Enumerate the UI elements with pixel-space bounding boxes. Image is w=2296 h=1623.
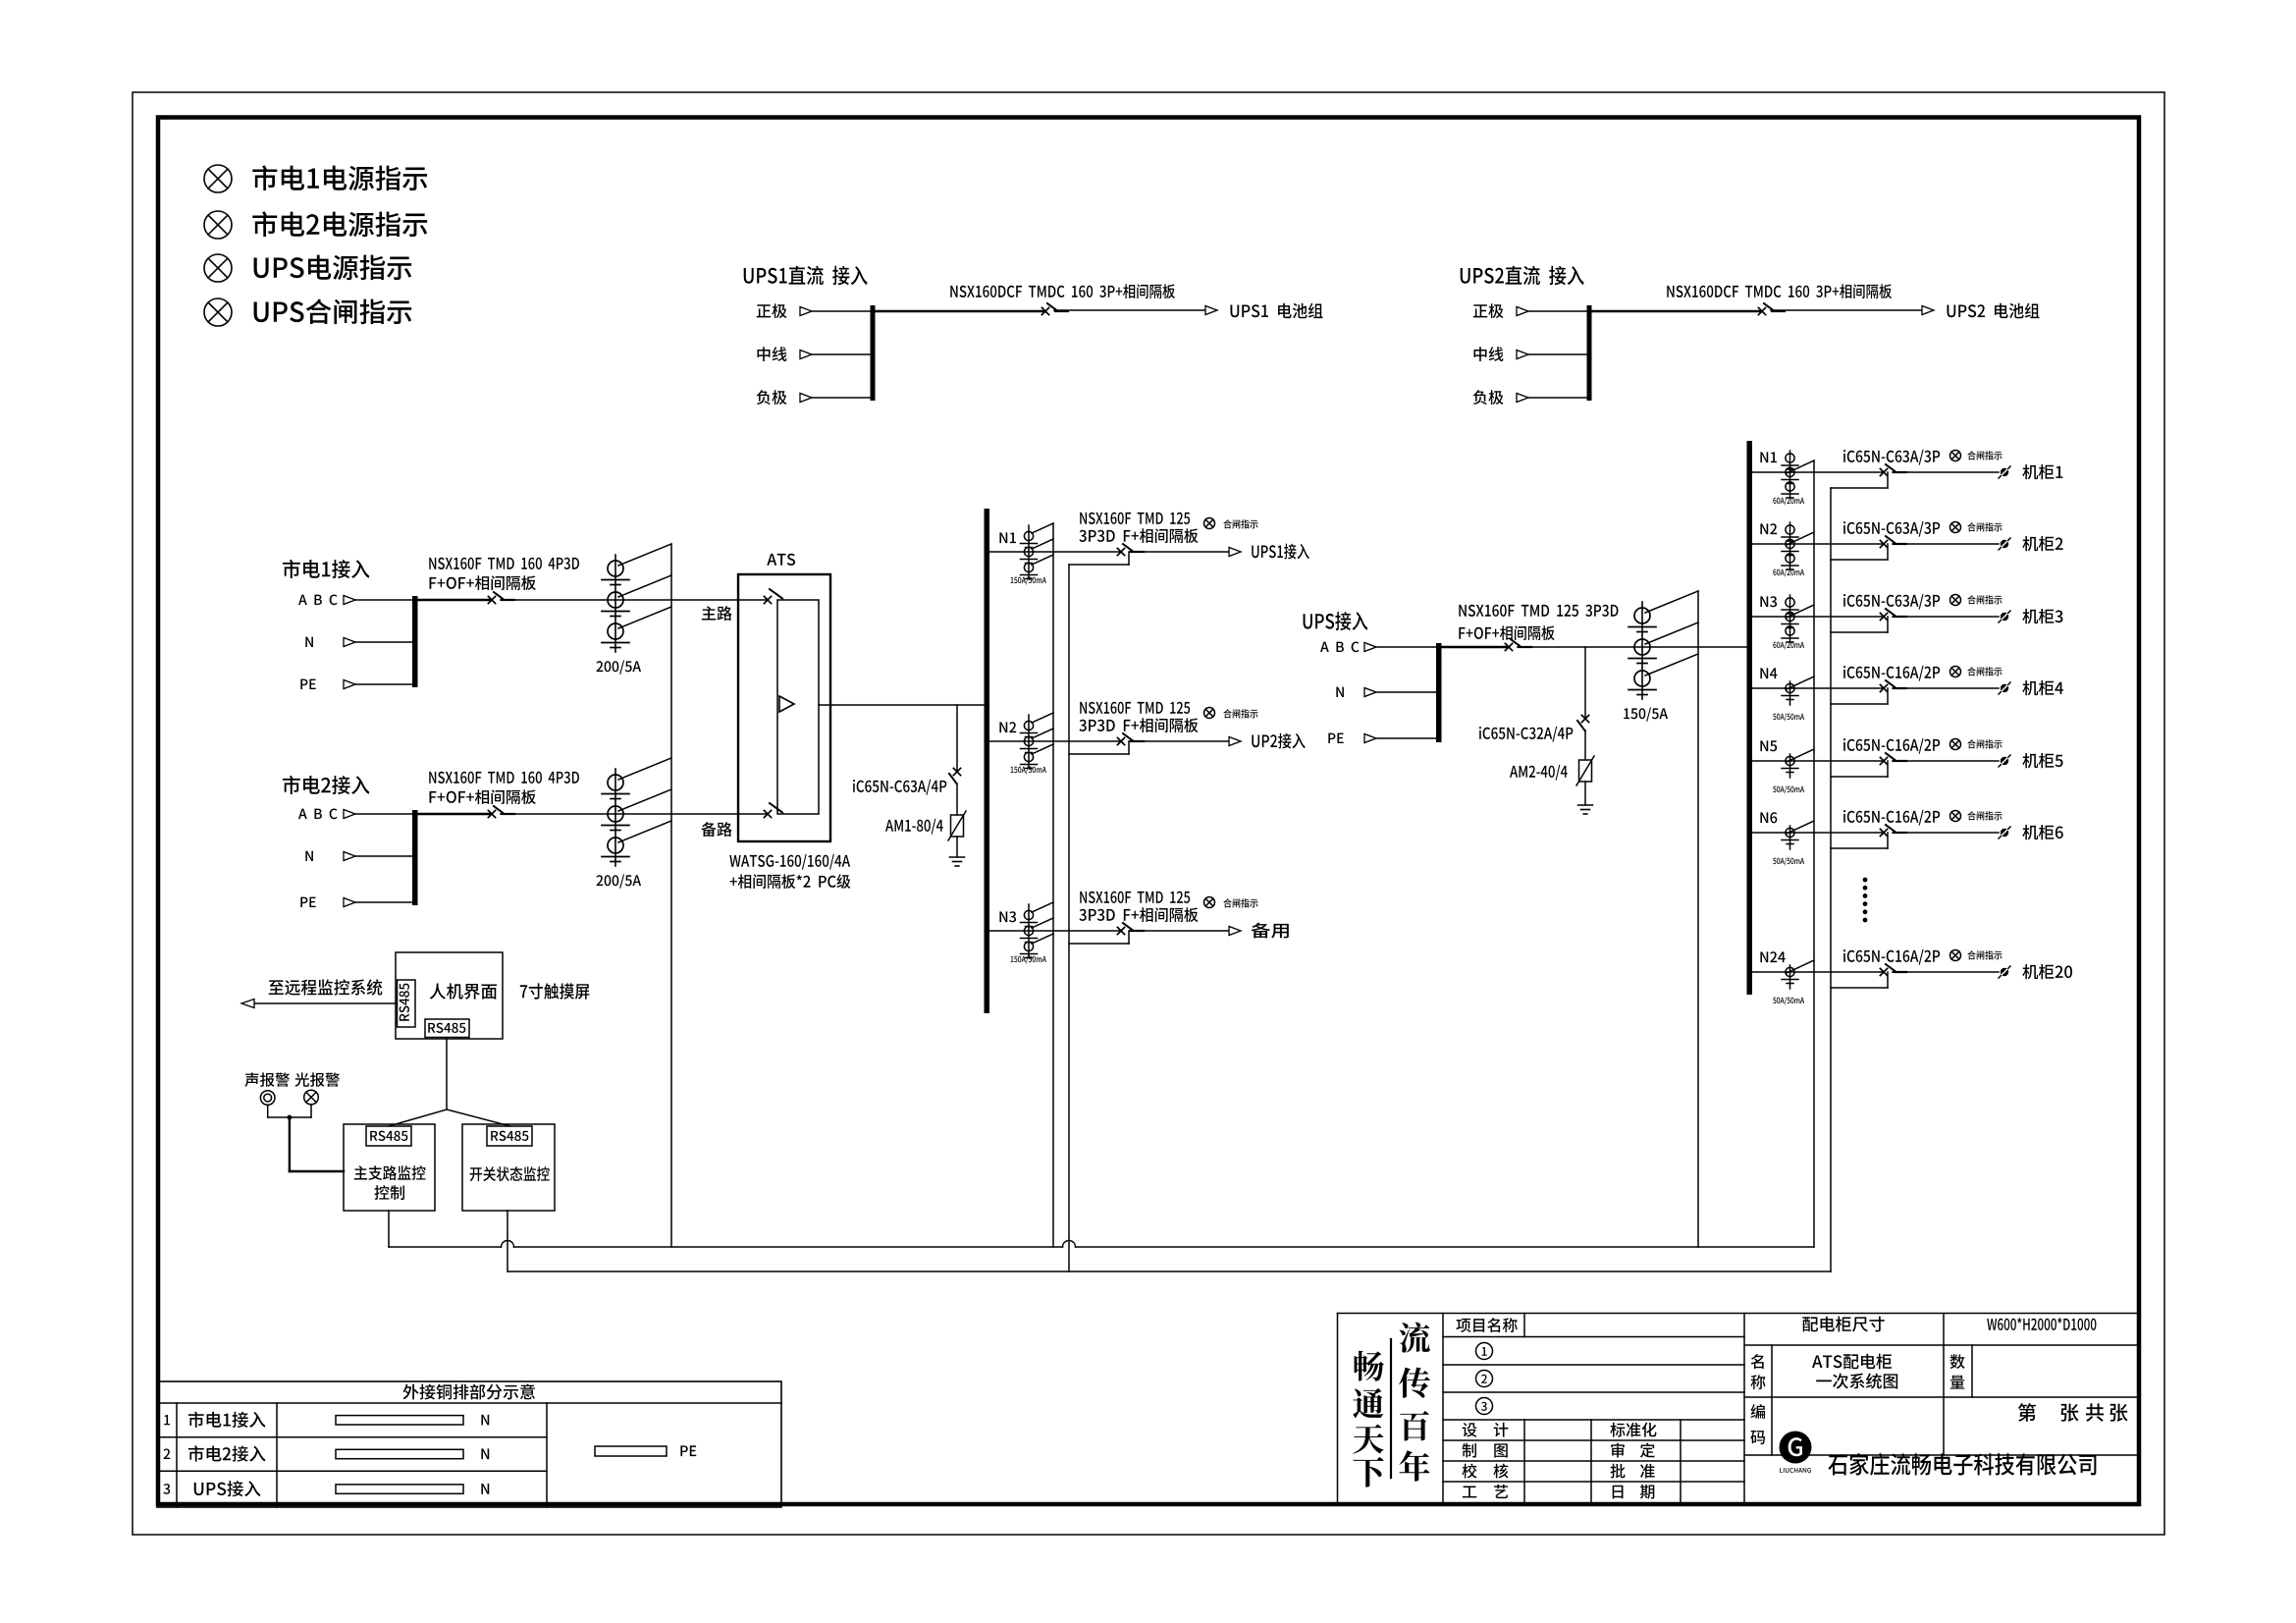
- label WATSG-160/160/4A: [729, 854, 850, 870]
- terminal 正极 label UPS2: [1473, 303, 1504, 318]
- wire breaker to rack N24: [1893, 971, 1999, 973]
- CT diagonals N2: [1032, 713, 1053, 754]
- label 3P3D F+相间隔板 N3: [1079, 907, 1198, 922]
- wire PE to busbar 市电2: [355, 901, 413, 903]
- status tap N3: [1831, 617, 1888, 632]
- wire N to busbar UPS: [1376, 691, 1437, 693]
- node 机柜3 label: [2022, 609, 2062, 623]
- node N2 label: [999, 722, 1016, 732]
- breaker QF-UPS2 NSX160DCF: [1758, 303, 1785, 315]
- arrow to UPS2 battery: [1922, 306, 1934, 315]
- wire ABC to busbar 市电1: [355, 599, 413, 601]
- status tap N3: [1069, 931, 1129, 944]
- wire UPS2 positive feed: [1591, 310, 1762, 313]
- node N6 (rack feed) label: [1760, 812, 1777, 823]
- wire drop to surge breaker: [956, 705, 958, 772]
- status tap N4: [1831, 688, 1888, 704]
- terminal PE 市电2: [300, 897, 315, 907]
- label iC65N-C63A/4P: [853, 780, 946, 795]
- label 合闸指示 N2: [1223, 709, 1257, 718]
- ATS standby-path breaker contact: [764, 803, 782, 818]
- CT secondary collection (UPS) to monitoring: [1697, 591, 1699, 1247]
- label 合闸指示 N4: [1967, 667, 2002, 676]
- label 60A/20mA N2: [1773, 568, 1804, 576]
- label ATS配电柜: [1812, 1354, 1892, 1370]
- node UPS1接入 label: [1252, 544, 1309, 560]
- busbar 市电2 input (vertical): [412, 810, 418, 905]
- terminal arrow N 市电2: [344, 852, 355, 861]
- drawing sheet outer border: [133, 92, 2164, 1535]
- wire alarms to monitor: [268, 1105, 344, 1171]
- copper bar table row lines: [157, 1437, 547, 1472]
- CT diagonal N5: [1787, 749, 1814, 762]
- label 合闸指示 N1: [1223, 519, 1257, 528]
- label 3P3D F+相间隔板 N1: [1079, 528, 1198, 543]
- wire PE to busbar 市电1: [355, 683, 413, 685]
- arrow UP2接入: [1229, 737, 1241, 746]
- status tap N1: [1831, 472, 1888, 488]
- terminal N UPS: [1336, 687, 1344, 697]
- terminal arrow ABC 市电2: [344, 810, 355, 819]
- arrow UPS1接入: [1229, 548, 1241, 557]
- label iC65N-C63A/3P N3: [1843, 594, 1940, 610]
- wire 负极 to busbar UPS2: [1528, 397, 1588, 399]
- terminal PE UPS: [1328, 733, 1343, 743]
- audible alarm HA: [260, 1091, 275, 1106]
- lamp 合闸指示 N5: [1950, 739, 1961, 750]
- busbar UPS1 DC (vertical): [871, 305, 876, 401]
- copper busbar N (row 3): [336, 1485, 463, 1493]
- table row 3 number: [163, 1484, 170, 1494]
- surge arrester AM1-80/4: [948, 811, 966, 840]
- node N24 (rack feed) label: [1760, 951, 1785, 962]
- legend text UPS合闸指示: [254, 298, 412, 324]
- RCD/CT N5 50A/50mA: [1782, 754, 1798, 778]
- wire to remote monitoring: [253, 1002, 396, 1004]
- terminal A B C UPS: [1320, 642, 1360, 653]
- wire branch N2 from busbar: [989, 740, 1121, 742]
- ATS outer box: [738, 574, 830, 841]
- CT group TA2 200/5A (3x): [602, 769, 629, 866]
- CT secondary diagonals 市电1: [618, 544, 671, 628]
- ATS label: [767, 554, 795, 566]
- wire breaker to output N1: [1130, 551, 1229, 553]
- calligraphy 流传百年: [1399, 1323, 1430, 1482]
- busbar UPS input (vertical): [1436, 643, 1442, 742]
- legend text 市电2电源指示: [252, 211, 427, 237]
- RS485 port (开关状态监控): [487, 1126, 532, 1146]
- node N5 (rack feed) label: [1760, 740, 1777, 751]
- label 名称 (vertical): [1750, 1354, 1765, 1389]
- label 150A/50mA N2: [1011, 766, 1046, 774]
- alarm label 光报警: [294, 1072, 340, 1086]
- node N1 (rack feed) label: [1760, 452, 1777, 462]
- label F+OF+相间隔板 市电2: [430, 789, 536, 804]
- label NSX160F TMD 125 N3: [1080, 892, 1190, 903]
- RCD/CT stack N3 60A/20mA: [1782, 595, 1798, 642]
- load connection 机柜3: [1999, 611, 2010, 622]
- RCD/CT stack N3 150A/50mA: [1021, 904, 1038, 958]
- legend lamp HL1: [204, 165, 232, 192]
- terminal N 市电2: [305, 851, 313, 861]
- terminal arrow PE UPS: [1364, 734, 1376, 743]
- CT diagonal N3: [1787, 605, 1814, 618]
- copper bar table column lines: [177, 1403, 547, 1507]
- wire busbar to breaker 市电2: [417, 813, 492, 816]
- label 日 期: [1613, 1485, 1655, 1499]
- label iC65N-C63A/3P N1: [1843, 450, 1940, 465]
- ground symbol (AM2): [1578, 805, 1593, 814]
- load connection 机柜2: [1999, 538, 2010, 550]
- label 合闸指示 N24: [1967, 950, 2002, 959]
- alarm label 声报警: [244, 1072, 290, 1086]
- circled number 1: [1476, 1343, 1493, 1360]
- RCD/CT N24 50A/50mA: [1782, 965, 1798, 989]
- wire 中线 to busbar UPS2: [1528, 353, 1588, 355]
- terminal arrow 正极 UPS1: [800, 307, 812, 316]
- terminal arrow PE 市电2: [344, 898, 355, 907]
- wire breaker to rack N5: [1893, 760, 1999, 762]
- busbar UPS2 DC (vertical): [1587, 305, 1592, 401]
- status tap N6: [1831, 833, 1888, 848]
- node 市电1接入 title: [283, 560, 370, 578]
- terminal arrow 中线 UPS1: [800, 351, 812, 359]
- surge arrester AM2-40/4: [1576, 756, 1594, 785]
- node 机柜1 label: [2022, 464, 2062, 479]
- status tap N5: [1831, 761, 1888, 777]
- monitor box 主支路监控控制: [344, 1124, 435, 1211]
- label 项目名称: [1456, 1318, 1517, 1332]
- breaker QF-UPS NSX160F TMD 125 3P3D: [1505, 639, 1531, 651]
- table row 1 number: [164, 1415, 170, 1425]
- label 60A/20mA N1: [1773, 497, 1804, 505]
- wire UPS1 positive feed: [875, 310, 1045, 313]
- breaker N5 iC65N-C16A/2P: [1880, 753, 1906, 765]
- wire fork to monitors: [389, 1109, 510, 1126]
- switch status collection (racks) to monitoring: [1830, 488, 1832, 1271]
- copper busbar N (row 2): [336, 1449, 463, 1458]
- label NSX160DCF TMDC 160 3P+相间隔板 UPS2: [1667, 284, 1892, 298]
- breaker QF N1 NSX160F TMD 125: [1117, 544, 1144, 556]
- terminal 负极 label UPS2: [1473, 390, 1504, 405]
- wire breaker to battery UPS1: [1054, 309, 1205, 311]
- ellipsis dots (racks 7-19): [1863, 878, 1868, 923]
- label 审 定: [1611, 1443, 1655, 1458]
- label 主支路监控: [354, 1165, 426, 1180]
- CT diagonals N1: [1032, 523, 1053, 565]
- label 60A/20mA N3: [1773, 641, 1804, 649]
- lamp 合闸指示 N3: [1204, 897, 1215, 908]
- CT diagonals N3: [1032, 902, 1053, 944]
- node 备用 label: [1252, 923, 1289, 939]
- terminal A B C 市电1: [298, 595, 338, 606]
- label NSX160F TMD 125 N1: [1080, 513, 1190, 524]
- copper bar table title row line: [157, 1402, 781, 1404]
- node N3 label: [999, 911, 1016, 922]
- ATS direction triangle: [779, 696, 794, 712]
- copper busbar PE: [595, 1446, 667, 1456]
- load connection 机柜6: [1999, 827, 2010, 839]
- table row 1 label 市电1接入: [188, 1412, 266, 1428]
- label 50A/50mA N6: [1773, 857, 1804, 865]
- table row 2 number: [164, 1449, 171, 1460]
- copper bar table frame: [157, 1381, 781, 1507]
- wire branch N24: [1752, 971, 1884, 973]
- wire ABC to busbar 市电2: [355, 813, 413, 815]
- wire breaker to ATS 市电1: [501, 599, 768, 601]
- label 编码 (vertical): [1750, 1404, 1765, 1444]
- lamp 合闸指示 N6: [1950, 811, 1961, 822]
- lamp 合闸指示 N2: [1950, 522, 1961, 533]
- node N4 (rack feed) label: [1760, 668, 1777, 678]
- CT diagonal N6: [1787, 821, 1814, 834]
- title block grid: [1338, 1314, 2140, 1503]
- CT diagonal N1: [1787, 460, 1814, 473]
- label iC65N-C16A/2P N6: [1843, 810, 1940, 826]
- breaker N6 iC65N-C16A/2P: [1880, 825, 1906, 837]
- node N2 (rack feed) label: [1760, 523, 1777, 534]
- label N (row 2): [481, 1448, 489, 1459]
- lamp 合闸指示 N24: [1950, 950, 1961, 961]
- wire N to busbar 市电1: [355, 641, 413, 643]
- breaker QF N3 NSX160F TMD 125: [1117, 923, 1144, 935]
- breaker QF-SPD2 iC65N-C32A/4P: [1577, 715, 1589, 730]
- label 开关状态监控: [470, 1166, 550, 1181]
- busbar 市电1 input (vertical): [412, 596, 418, 687]
- monitor box 开关状态监控: [462, 1124, 555, 1211]
- label 合闸指示 N6: [1967, 811, 2002, 820]
- terminal 中线 label UPS1: [757, 347, 786, 361]
- wire drop to surge breaker UPS: [1584, 647, 1586, 719]
- node UPS1 电池组: [1230, 303, 1322, 319]
- breaker QF1 NSX160F TMD 160 4P3D: [488, 592, 514, 604]
- load connection 机柜5: [1999, 755, 2010, 767]
- label NSX160F TMD 160 4P3D 市电1: [429, 558, 579, 569]
- CT secondary collection (racks) to monitoring: [1813, 460, 1815, 1247]
- status tap N24: [1831, 972, 1888, 988]
- wire busbar to breaker UPS: [1441, 646, 1509, 649]
- node 机柜6 label: [2022, 825, 2062, 839]
- status tap N1: [1069, 552, 1129, 565]
- switch-status monitoring bus: [507, 1271, 1831, 1272]
- label 配电柜尺寸: [1802, 1317, 1884, 1332]
- ATS inner switch box: [777, 600, 819, 814]
- label +相间隔板*2 PC级: [730, 874, 851, 889]
- ground symbol (AM1): [950, 857, 965, 866]
- wire 主支路监控 down: [388, 1211, 390, 1247]
- label iC65N-C63A/3P N2: [1843, 521, 1940, 537]
- wire breaker to rack N1: [1893, 471, 1999, 473]
- label 批 准: [1610, 1464, 1654, 1479]
- RCD/CT N4 50A/50mA: [1782, 681, 1798, 705]
- lamp 合闸指示 N3: [1950, 595, 1961, 606]
- label N (row 1): [481, 1415, 489, 1426]
- breaker QF2 NSX160F TMD 160 4P3D: [488, 806, 514, 818]
- CT diagonal N2: [1787, 532, 1814, 545]
- terminal arrow 中线 UPS2: [1517, 351, 1528, 359]
- terminal 正极 label UPS1: [757, 303, 787, 318]
- label 第 张 共 张: [2018, 1403, 2128, 1422]
- terminal 负极 label UPS1: [757, 390, 787, 405]
- CT diagonal N4: [1787, 676, 1814, 689]
- node 市电2接入 title: [283, 776, 370, 794]
- label N (row 3): [481, 1484, 489, 1494]
- terminal arrow N 市电1: [344, 638, 355, 647]
- wire ATS output to main busbar: [819, 704, 985, 706]
- label 人机界面: [430, 983, 497, 999]
- wire branch N3: [1752, 616, 1884, 618]
- wire branch N1 from busbar: [989, 551, 1121, 553]
- terminal N 市电1: [305, 637, 313, 647]
- HMI RS485 port (left): [398, 980, 416, 1027]
- label NSX160DCF TMDC 160 3P+相间隔板 UPS1: [950, 284, 1175, 298]
- breaker N1 iC65N-C63A/3P: [1880, 464, 1906, 476]
- label 合闸指示 N5: [1967, 739, 2002, 748]
- terminal arrow 负极 UPS1: [800, 394, 812, 403]
- wire breaker to output N3: [1130, 930, 1229, 932]
- wire 正极 to busbar UPS1: [812, 310, 872, 312]
- label 一次系统图: [1816, 1374, 1897, 1389]
- label W600*H2000*D1000: [1987, 1318, 2096, 1330]
- lamp 合闸指示 N4: [1950, 667, 1961, 677]
- RCD/CT stack N2 60A/20mA: [1782, 522, 1798, 569]
- label 校核: [1462, 1464, 1508, 1479]
- label iC65N-C16A/2P N24: [1843, 949, 1940, 965]
- wire branch N3 from busbar: [989, 930, 1121, 932]
- label 150A/50mA N3: [1011, 955, 1046, 963]
- wire breaker to ATS 市电2: [501, 813, 768, 815]
- wire branch N4: [1752, 687, 1884, 689]
- terminal PE 市电1: [300, 679, 315, 689]
- wire busbar to breaker 市电1: [417, 599, 492, 602]
- lamp 合闸指示 N2: [1204, 708, 1215, 719]
- calligraphy divider: [1390, 1339, 1392, 1478]
- CT group TA-UPS 150/5A (3x): [1629, 602, 1656, 699]
- label 150A/50mA N1: [1011, 576, 1046, 584]
- wire branch N5: [1752, 760, 1884, 762]
- distribution busbar (rack feeds): [1747, 441, 1753, 995]
- node 机柜20 label: [2022, 964, 2072, 979]
- label 3P3D F+相间隔板 N2: [1079, 718, 1198, 732]
- label 主路: [702, 606, 732, 621]
- breaker QF-UPS1 NSX160DCF: [1041, 303, 1068, 315]
- label 合闸指示 N1: [1967, 451, 2002, 460]
- node N1 label: [999, 532, 1016, 543]
- RCD/CT stack N1 150A/50mA: [1021, 525, 1038, 579]
- label 工艺: [1463, 1485, 1508, 1498]
- company name 石家庄流畅电子科技有限公司: [1828, 1453, 2096, 1476]
- label 设计: [1463, 1423, 1509, 1437]
- breaker N24 iC65N-C16A/2P: [1880, 964, 1906, 976]
- terminal arrow PE 市电1: [344, 680, 355, 689]
- legend lamp HL3: [204, 254, 232, 282]
- label 合闸指示 N2: [1967, 522, 2002, 531]
- main busbar (after ATS): [985, 509, 990, 1013]
- wire 开关状态监控 down: [507, 1211, 508, 1271]
- label iC65N-C16A/2P N5: [1843, 738, 1940, 754]
- lamp 合闸指示 N1: [1204, 518, 1215, 529]
- load connection 机柜4: [1999, 682, 2010, 694]
- wire breaker to rack N4: [1893, 687, 1999, 689]
- node 机柜2 label: [2022, 536, 2062, 551]
- load connection 机柜1: [1999, 466, 2010, 478]
- arrow 备用: [1229, 927, 1241, 936]
- circled number 3: [1476, 1398, 1493, 1415]
- wire branch N1: [1752, 471, 1884, 473]
- label 控制: [374, 1185, 403, 1200]
- legend text 市电1电源指示: [252, 165, 427, 190]
- wire breaker to rack N3: [1893, 616, 1999, 618]
- circled number 2: [1476, 1371, 1493, 1387]
- label 数量 (vertical): [1950, 1354, 1965, 1388]
- lamp 合闸指示 N1: [1950, 451, 1961, 461]
- status tap N2: [1069, 741, 1129, 754]
- wire breaker to rack N2: [1893, 543, 1999, 545]
- wire branch N2: [1752, 543, 1884, 545]
- breaker N3 iC65N-C63A/3P: [1880, 609, 1906, 621]
- wire breaker to battery UPS2: [1771, 309, 1922, 311]
- label iC65N-C16A/2P N4: [1843, 666, 1940, 681]
- wire breaker to rack N6: [1893, 832, 1999, 834]
- terminal arrow 负极 UPS2: [1517, 394, 1528, 403]
- terminal arrow ABC UPS: [1364, 643, 1376, 652]
- label 200/5A 市电1: [597, 661, 642, 675]
- CT secondary diagonals 市电2: [618, 758, 671, 842]
- node UPS2 DC input title: [1461, 266, 1584, 286]
- label AM1-80/4: [885, 819, 943, 835]
- HMI box 人机界面: [396, 952, 503, 1039]
- terminal 中线 label UPS2: [1473, 347, 1503, 361]
- breaker N2 iC65N-C63A/3P: [1880, 536, 1906, 548]
- legend text UPS电源指示: [254, 255, 412, 281]
- legend lamp HL4: [204, 298, 232, 326]
- label 标准化: [1610, 1423, 1656, 1437]
- label iC65N-C32A/4P: [1479, 727, 1573, 742]
- label PE: [680, 1445, 696, 1456]
- company logo: [1780, 1432, 1812, 1473]
- label F+OF+相间隔板 UPS: [1459, 625, 1554, 640]
- node N3 (rack feed) label: [1760, 596, 1777, 607]
- wire branch N6: [1752, 832, 1884, 834]
- label NSX160F TMD 125 N2: [1080, 702, 1190, 714]
- wire 负极 to busbar UPS1: [812, 397, 872, 399]
- label F+OF+相间隔板 市电1: [430, 575, 536, 590]
- table row 3 label UPS接入: [194, 1481, 261, 1496]
- node UPS1 DC input title: [744, 266, 868, 286]
- copper busbar N (row 1): [336, 1416, 463, 1425]
- wire arrester to ground: [956, 837, 958, 857]
- label 制图: [1463, 1443, 1508, 1458]
- RCD/CT N6 50A/50mA: [1782, 826, 1798, 849]
- CT secondary collection (N1-N3) to monitoring: [1052, 523, 1054, 1247]
- breaker QF-SPD1 iC65N-C63A/4P: [949, 768, 961, 784]
- legend lamp HL2: [204, 211, 232, 239]
- node 机柜5 label: [2022, 753, 2062, 768]
- node UP2接入 label: [1252, 733, 1305, 749]
- ATS main-path breaker contact: [764, 589, 782, 604]
- CT diagonal N24: [1787, 960, 1814, 973]
- arrow to UPS1 battery: [1205, 306, 1217, 315]
- wire arrester to ground AM2: [1584, 782, 1586, 805]
- terminal arrow 正极 UPS2: [1517, 307, 1528, 316]
- label 50A/50mA N4: [1773, 713, 1804, 721]
- RCD/CT stack N1 60A/20mA: [1782, 451, 1798, 498]
- table row 2 label 市电2接入: [188, 1445, 266, 1461]
- terminal A B C 市电2: [298, 809, 338, 820]
- arrow to remote monitoring: [241, 1000, 254, 1008]
- status tap N2: [1831, 544, 1888, 560]
- wire CT secondary collection (mains) down to monitoring: [670, 544, 672, 1247]
